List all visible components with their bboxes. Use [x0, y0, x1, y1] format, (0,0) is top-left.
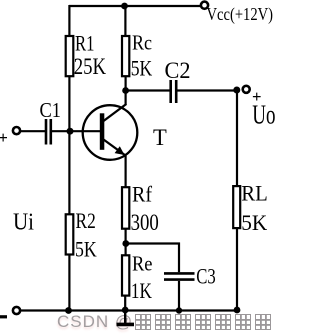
resistor R1	[66, 36, 74, 76]
wire Re bottom	[124, 297, 126, 311]
ground	[124, 310, 126, 323]
node input bottom terminal	[13, 307, 20, 314]
node junction RL / bottom rail	[234, 307, 241, 314]
transistor emitter arrow	[115, 146, 125, 155]
node junction bottom Re/ground	[122, 307, 129, 314]
wire R1 bottom to junction	[68, 77, 70, 131]
resistor R2	[66, 214, 74, 254]
wire input to C1	[20, 130, 45, 132]
svg-text:Vcc(+12V): Vcc(+12V)	[207, 4, 274, 25]
wire Rc bottom to collector	[124, 77, 126, 105]
svg-text:5K: 5K	[241, 210, 268, 235]
node output terminal	[243, 86, 250, 93]
label - input	[0, 315, 7, 318]
svg-text:T: T	[153, 125, 167, 150]
watermark CSDN	[57, 312, 290, 332]
svg-text:Ui: Ui	[13, 208, 34, 235]
wire R1 column upper	[68, 5, 70, 36]
wire junction to R2 top	[68, 131, 70, 214]
node Vcc terminal	[201, 2, 208, 9]
wire RL bottom	[236, 229, 238, 310]
capacitor C1	[45, 119, 48, 145]
svg-text:5K: 5K	[75, 237, 97, 262]
node junction top of Rc	[121, 3, 128, 10]
wire RL column upper	[236, 92, 238, 186]
node junction collector / C2 branch	[122, 87, 129, 94]
node junction Rf/Re/C3	[122, 240, 129, 247]
svg-text:Rf: Rf	[132, 182, 153, 207]
svg-text:5K: 5K	[131, 56, 153, 81]
resistor RL	[233, 186, 240, 228]
svg-text:Re: Re	[132, 252, 153, 276]
wire C3 branch down	[178, 243, 180, 273]
node junction C3 / bottom rail	[176, 307, 182, 313]
node input terminal	[13, 127, 20, 134]
svg-text:+: +	[0, 128, 8, 147]
wire Rf to Re	[124, 230, 126, 256]
transistor emitter lead	[104, 140, 126, 156]
transistor collector lead	[104, 104, 127, 121]
wire Rc top stub	[124, 6, 126, 36]
wire C2 branch right	[177, 89, 237, 91]
wire C3 branch horizontal	[126, 242, 180, 244]
resistor Re	[122, 255, 129, 295]
resistor Rf	[122, 187, 129, 229]
wire C3 bottom	[178, 281, 180, 310]
wire R2 bottom	[68, 256, 70, 311]
wire top rail	[69, 5, 202, 7]
node junction bottom R2	[65, 307, 72, 314]
svg-text:R2: R2	[76, 208, 96, 233]
wire C1 to base	[52, 130, 100, 132]
resistor Rc	[122, 36, 129, 76]
svg-text:C3: C3	[196, 264, 216, 289]
wire C2 branch left	[126, 89, 170, 91]
transistor T	[83, 105, 138, 160]
svg-text:Uo: Uo	[252, 98, 275, 129]
node junction top of RL	[233, 87, 240, 94]
svg-text:C2: C2	[165, 58, 191, 83]
svg-text:1K: 1K	[131, 278, 153, 303]
svg-text:C1: C1	[40, 98, 62, 122]
wire bottom rail	[20, 309, 237, 311]
wire emitter down to Rf	[124, 155, 126, 187]
capacitor C3	[164, 272, 195, 275]
svg-text:Rc: Rc	[132, 31, 152, 55]
svg-text:RL: RL	[241, 180, 267, 205]
node junction base / bias divider	[67, 128, 74, 135]
svg-text:R1: R1	[75, 30, 95, 55]
capacitor C2	[169, 80, 172, 103]
svg-text:300: 300	[131, 210, 159, 235]
svg-text:25K: 25K	[74, 54, 107, 79]
